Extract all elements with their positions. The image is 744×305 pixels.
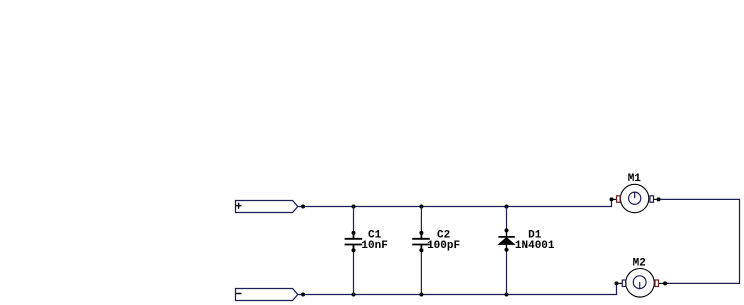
pin dot C2 bottom: [419, 248, 423, 252]
node dot M1 right: [657, 197, 661, 201]
M2 body circle: [626, 269, 655, 298]
motor M2: [622, 269, 658, 298]
label - of J2: [236, 293, 242, 295]
M1 body circle: [620, 184, 648, 212]
wire top rail: [298, 199, 612, 206]
wire M1 right to M2 right: [659, 199, 740, 283]
M2 hand line: [639, 282, 641, 288]
pin stub M1 left: [612, 198, 617, 200]
M2 right terminal: [655, 280, 659, 287]
M1 hand line: [634, 192, 636, 198]
node dot J2 tip: [301, 293, 305, 297]
pin stub M2 right: [659, 282, 666, 284]
node dot M2 right: [663, 281, 667, 285]
wire bottom rail: [298, 283, 617, 294]
pin stub M1 right: [654, 198, 659, 200]
svg-text:M1: M1: [628, 173, 642, 185]
M1 right terminal: [650, 196, 654, 203]
svg-text:M2: M2: [633, 257, 646, 269]
svg-text:10nF: 10nF: [361, 240, 387, 252]
node dot M1 left: [610, 197, 614, 201]
M1 left terminal: [617, 196, 621, 203]
M2 inner circle: [633, 276, 646, 289]
svg-text:100pF: 100pF: [427, 240, 460, 252]
node dot J1 tip: [301, 205, 305, 209]
pin dot C1 bottom: [352, 248, 356, 252]
node dot C2 bottom rail: [419, 293, 423, 297]
M1 inner circle: [629, 192, 641, 204]
node dot C1 top rail: [352, 205, 356, 209]
M2 left terminal: [622, 280, 626, 287]
node dot C1 bottom rail: [352, 293, 356, 297]
wire C2 vertical bottom: [420, 250, 422, 294]
pin dot C1 top: [352, 231, 356, 235]
connector J1 (+): [236, 201, 298, 213]
node dot C2 top rail: [419, 205, 423, 209]
node dot D1 top rail: [505, 205, 509, 209]
motor M1: [617, 184, 654, 212]
capacitor C2: [412, 233, 430, 250]
node dot M2 left: [614, 281, 618, 285]
label + of J1: [236, 203, 242, 209]
pin stub M2 left: [616, 282, 622, 284]
node dot D1 bottom rail: [505, 293, 509, 297]
diode D1: [498, 230, 514, 249]
wire D1 vertical bottom: [506, 250, 508, 295]
wire D1 vertical top: [506, 207, 508, 231]
wire C1 vertical bottom: [353, 250, 355, 294]
svg-text:1N4001: 1N4001: [515, 240, 555, 252]
pin dot C2 top: [419, 231, 423, 235]
capacitor C1: [345, 233, 363, 250]
connector J2 (-): [236, 289, 298, 301]
wire C2 vertical top: [420, 207, 422, 233]
pin dot D1 bottom: [505, 248, 509, 252]
wire C1 vertical top: [353, 207, 355, 233]
pin dot D1 top: [505, 228, 509, 232]
